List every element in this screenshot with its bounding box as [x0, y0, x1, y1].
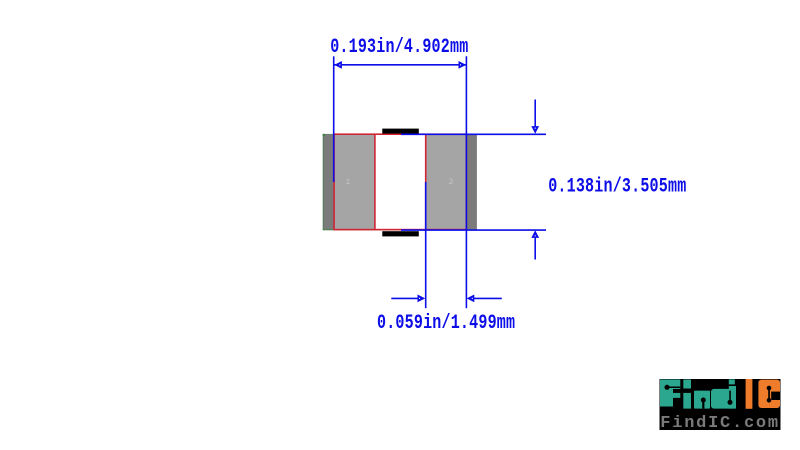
svg-text:0.193in/4.902mm: 0.193in/4.902mm — [330, 36, 468, 59]
svg-text:0.059in/1.499mm: 0.059in/1.499mm — [377, 312, 515, 335]
svg-text:0.138in/3.505mm: 0.138in/3.505mm — [548, 176, 686, 199]
svg-text:2: 2 — [449, 178, 454, 187]
svg-text:1: 1 — [346, 178, 351, 187]
svg-text:FindIC.com: FindIC.com — [660, 414, 780, 433]
